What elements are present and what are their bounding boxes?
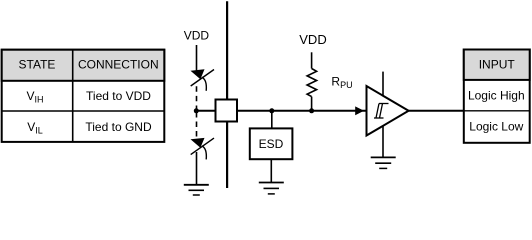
svg-text:VDD: VDD [184,28,210,42]
svg-text:Logic High: Logic High [468,88,525,102]
svg-text:ESD: ESD [259,137,284,151]
svg-text:VDD: VDD [299,32,326,47]
svg-text:Logic Low: Logic Low [469,120,523,134]
svg-text:INPUT: INPUT [479,58,516,72]
svg-text:Tied to VDD: Tied to VDD [86,89,151,103]
svg-text:CONNECTION: CONNECTION [78,58,159,72]
svg-text:STATE: STATE [19,58,56,72]
svg-text:Tied to GND: Tied to GND [85,120,152,134]
